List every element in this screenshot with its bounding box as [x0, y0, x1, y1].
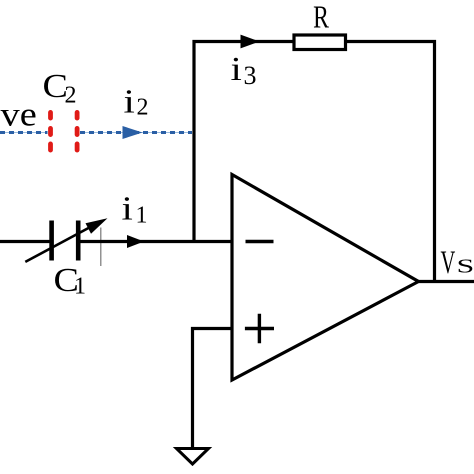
svg-text:i: i	[231, 51, 242, 88]
capacitor C2 right plate red dashes	[75, 110, 80, 153]
wire output	[419, 280, 474, 283]
wire input left segment	[0, 240, 50, 243]
arrow i1 on input wire	[127, 235, 144, 248]
svg-text:2: 2	[137, 95, 149, 121]
svg-text:3: 3	[244, 61, 257, 90]
ground	[177, 449, 209, 465]
svg-text:i: i	[122, 191, 133, 228]
op-amp U1	[232, 175, 419, 381]
wire feedback loop: left vertical, top horizontal, right vertical	[194, 42, 435, 282]
capacitor C2 left plate red dashes	[48, 110, 53, 153]
op-amp plus input symbol	[245, 314, 274, 344]
wire plus input	[193, 329, 233, 449]
capacitor C1 thin trimmer mark	[100, 228, 102, 267]
arrow i3 on top wire	[241, 35, 260, 49]
wire blue faint underlay	[0, 132, 48, 134]
svg-text:2: 2	[65, 83, 77, 109]
svg-text:R: R	[313, 0, 329, 35]
capacitor C1 right plate	[76, 221, 81, 261]
capacitor C1 left plate	[49, 221, 54, 261]
arrow i2 blue	[123, 126, 143, 139]
resistor R	[294, 35, 346, 50]
svg-text:1: 1	[74, 274, 86, 300]
op-amp minus input symbol	[246, 240, 274, 243]
wire blue dashed i2 left segment	[0, 131, 48, 134]
svg-text:V: V	[441, 244, 456, 280]
svg-text:i: i	[124, 84, 135, 121]
svg-text:1: 1	[136, 203, 148, 229]
svg-text:S: S	[457, 255, 474, 277]
svg-text:ve: ve	[1, 96, 37, 133]
capacitor C1 variable arrow diagonal	[25, 225, 95, 262]
wire input right segment to op-amp	[81, 240, 233, 243]
wire blue dashed i2 right segment	[80, 131, 192, 134]
